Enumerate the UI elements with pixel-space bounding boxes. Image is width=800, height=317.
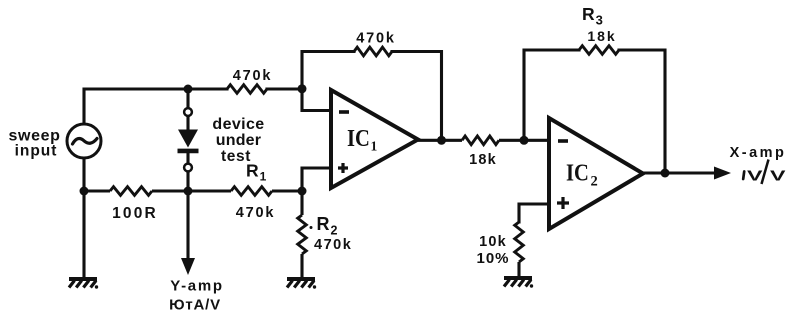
- svg-text:2: 2: [591, 174, 598, 190]
- wire IC2 output: [643, 171, 716, 174]
- wire IC1 output: [418, 139, 462, 142]
- svg-text:470k: 470k: [356, 31, 395, 47]
- op-amp IC2: [549, 118, 643, 229]
- svg-text:470k: 470k: [236, 205, 275, 221]
- node on top rail (device): [184, 85, 193, 94]
- svg-text:470k: 470k: [233, 68, 272, 84]
- wire jog to IC1 minus input: [302, 89, 331, 111]
- IC1 feedback loop wire: [302, 52, 354, 89]
- wire to IC2 minus input: [499, 139, 549, 142]
- svg-text:IC: IC: [566, 159, 589, 186]
- wire 10k to ground: [517, 262, 520, 277]
- svg-text:V: V: [747, 168, 763, 185]
- svg-text:ЮтA/V: ЮтA/V: [169, 297, 221, 313]
- resistor 470k (top rail): [227, 85, 267, 94]
- svg-text:device: device: [212, 116, 264, 133]
- node IC1 output: [437, 136, 446, 145]
- ground (under 10k): [504, 276, 532, 280]
- ground (under R2): [287, 277, 315, 281]
- feedback wire right leg to output: [619, 50, 665, 173]
- svg-text:IC: IC: [347, 124, 370, 151]
- wire top rail right segment: [267, 87, 302, 90]
- node IC1 inverting input: [298, 84, 307, 93]
- svg-text:V: V: [770, 168, 786, 185]
- svg-text:18k: 18k: [587, 28, 616, 44]
- device under test (diode with terminals): [178, 89, 199, 191]
- svg-text:10%: 10%: [476, 250, 509, 267]
- feedback wire right leg: [392, 52, 442, 141]
- svg-text:X-amp: X-amp: [730, 145, 787, 161]
- svg-text:1: 1: [371, 139, 378, 154]
- wire top rail left segment: [84, 89, 227, 124]
- ground (under source): [69, 277, 97, 281]
- svg-text:100R: 100R: [112, 205, 158, 222]
- node IC2 inverting input: [520, 136, 529, 145]
- wire jog to IC1 plus input: [302, 168, 331, 191]
- node IC2 output: [661, 169, 670, 178]
- op-amp IC1: [331, 90, 418, 188]
- wire IC2 plus input: [519, 204, 549, 222]
- wire bottom rail seg1: [84, 189, 110, 192]
- wire source to bottom rail: [82, 158, 85, 191]
- resistor 10k 10%: [515, 222, 524, 262]
- wire source branch to ground: [82, 191, 85, 278]
- voltage source (sweep input): [67, 124, 101, 158]
- resistor 100R: [110, 187, 152, 196]
- resistor R1 470k: [231, 187, 272, 196]
- wire R1 to node: [272, 189, 302, 192]
- resistor R3 18k (feedback): [579, 46, 619, 55]
- IC2 feedback loop wire: [524, 50, 579, 140]
- resistor 18k (series): [462, 136, 499, 145]
- wire bottom rail seg2: [152, 189, 231, 192]
- X-amp output arrowhead: [714, 167, 731, 180]
- node junction bottom-left: [80, 187, 89, 196]
- svg-text:under: under: [216, 132, 261, 149]
- resistor 470k (IC1 feedback): [354, 47, 392, 56]
- svg-text:18k: 18k: [469, 152, 497, 168]
- svg-text:10k: 10k: [479, 234, 507, 250]
- node on bottom rail (device): [184, 187, 193, 196]
- node IC1 non-inverting input: [298, 187, 307, 196]
- Y-amp output arrow: [181, 191, 195, 275]
- svg-text:Y-amp: Y-amp: [170, 278, 224, 295]
- svg-text:470k: 470k: [314, 237, 352, 253]
- svg-text:input: input: [15, 143, 58, 160]
- resistor R2 470k: [298, 191, 307, 278]
